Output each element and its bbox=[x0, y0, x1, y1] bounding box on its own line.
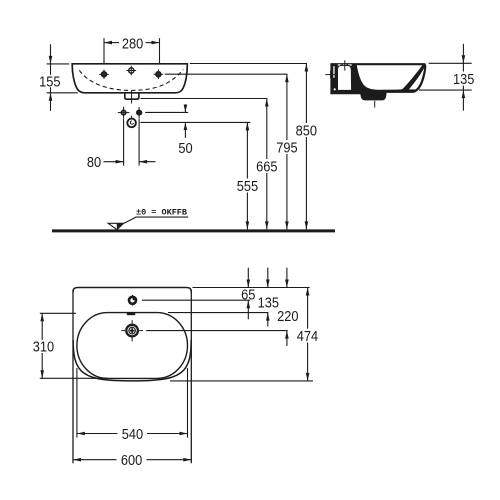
dim 80 line and arrows bbox=[104, 161, 156, 163]
svg-text:474: 474 bbox=[297, 329, 318, 345]
svg-text:310: 310 bbox=[33, 340, 54, 356]
plan view outer oval front bbox=[73, 340, 191, 381]
level line B siphon bbox=[140, 121, 250, 123]
level symbol triangle bbox=[108, 217, 188, 230]
svg-text:135: 135 bbox=[453, 72, 474, 88]
plan view side lines bbox=[73, 290, 191, 463]
svg-text:280: 280 bbox=[122, 36, 143, 52]
dimension texts bbox=[33, 36, 475, 469]
plan view top edge bbox=[73, 288, 191, 292]
siphon circle bbox=[127, 119, 136, 128]
front view basin outline bbox=[72, 64, 187, 93]
svg-text:850: 850 bbox=[296, 123, 317, 139]
dim 555 line bbox=[246, 122, 248, 229]
plan view inner bowl bbox=[77, 313, 188, 379]
dim 135 plan bbox=[267, 268, 269, 327]
svg-text:±0 = OKFFB: ±0 = OKFFB bbox=[136, 208, 187, 218]
drain tab bbox=[125, 93, 139, 99]
dim 50 line and arrows bbox=[184, 104, 186, 138]
side view body bbox=[330, 63, 426, 100]
dim 80 extension lines bbox=[124, 119, 140, 166]
dim 850 line bbox=[305, 64, 307, 230]
plan overflow slot bbox=[127, 313, 135, 315]
fixing hole right bbox=[136, 107, 142, 119]
dim 155 extension lines bbox=[47, 64, 78, 93]
side view drain centerline bbox=[374, 101, 376, 108]
dim 280 line and arrows bbox=[104, 42, 160, 44]
dim 135 side line and arrows bbox=[462, 44, 464, 111]
dim 65 bbox=[247, 268, 249, 320]
level line C drain bbox=[141, 98, 268, 100]
dim 600 line bbox=[73, 459, 191, 461]
dim 155 line and arrows bbox=[50, 44, 52, 111]
plan small hole bbox=[129, 295, 136, 306]
svg-text:65: 65 bbox=[241, 288, 255, 304]
svg-text:555: 555 bbox=[237, 179, 258, 195]
dim 474 bbox=[307, 288, 309, 381]
ground line bbox=[52, 229, 335, 232]
side view faucet centerline cross bbox=[340, 60, 350, 70]
svg-text:220: 220 bbox=[277, 309, 298, 325]
dim 135 side extension lines bbox=[419, 63, 472, 90]
dim 540 extension lines bbox=[77, 368, 188, 438]
svg-text:135: 135 bbox=[258, 296, 279, 312]
dim 795 line bbox=[286, 74, 288, 229]
level line A fixing holes bbox=[145, 111, 188, 113]
svg-text:665: 665 bbox=[256, 159, 277, 175]
dim 540 line bbox=[77, 433, 188, 435]
dim 280 extension lines bbox=[104, 38, 160, 63]
dim 665 line bbox=[266, 99, 268, 230]
fixing hole left bbox=[118, 107, 130, 119]
svg-text:540: 540 bbox=[122, 427, 143, 443]
faucet hole left bbox=[99, 70, 109, 80]
dim 310 line bbox=[41, 313, 43, 378]
level line D faucets bbox=[165, 73, 288, 75]
svg-text:50: 50 bbox=[178, 141, 192, 157]
front view bowl dashed arc bbox=[79, 70, 183, 91]
level line E rim bbox=[190, 63, 307, 65]
svg-text:155: 155 bbox=[39, 74, 60, 90]
plan drain hole bbox=[121, 320, 143, 341]
dim 220 bbox=[286, 268, 288, 346]
faucet hole middle (open) bbox=[127, 66, 137, 76]
svg-text:80: 80 bbox=[87, 155, 101, 171]
plan right extension lines bbox=[142, 288, 313, 381]
side view wall cross bbox=[325, 71, 337, 79]
dim 310 extension lines bbox=[40, 313, 108, 378]
centerline below drain bbox=[131, 91, 133, 119]
faucet hole right bbox=[154, 70, 164, 80]
svg-text:600: 600 bbox=[121, 453, 142, 469]
svg-text:795: 795 bbox=[276, 141, 297, 157]
